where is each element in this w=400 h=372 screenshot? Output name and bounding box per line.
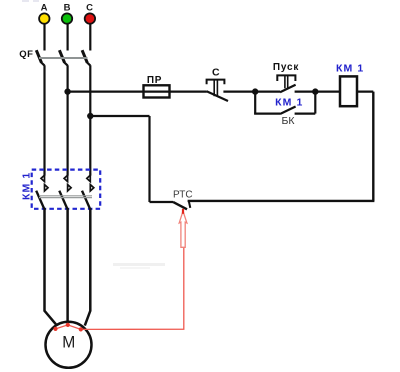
- svg-text:КМ 1: КМ 1: [21, 172, 33, 200]
- contactor pole A lower triangle: [45, 185, 49, 191]
- contactor pole B lower triangle: [68, 185, 72, 191]
- thermal contact RTC left wire: [150, 201, 174, 203]
- contactor pole A upper triangle: [41, 175, 45, 181]
- red arrow solid tip: [182, 209, 184, 214]
- wire phase B from QF to contactor: [66, 65, 68, 175]
- fuse PR body: [144, 85, 170, 97]
- svg-text:КМ 1: КМ 1: [275, 97, 303, 109]
- faint watermark smudge: [113, 263, 165, 269]
- auxiliary contact KM1 blade: [280, 107, 296, 115]
- auxiliary contact branch right wire: [314, 92, 316, 114]
- wire from node C going right: [90, 115, 149, 117]
- wire phase C from terminal to QF: [89, 24, 91, 51]
- breaker QF pole A blade: [36, 50, 44, 65]
- phase terminal C: [85, 3, 95, 24]
- control wire from node B to stop button: [68, 90, 207, 92]
- red sensor dot 2: [66, 323, 70, 327]
- stop button C plunger: [214, 80, 217, 97]
- svg-text:QF: QF: [19, 49, 33, 60]
- thermal contact RTC right stub: [189, 202, 190, 208]
- wire phase A from contactor to motor: [45, 208, 58, 326]
- bottom return wire: [188, 200, 375, 202]
- svg-text:С: С: [212, 66, 220, 78]
- start button Pusk bracket: [277, 75, 295, 81]
- wire phase A from QF to contactor: [43, 65, 45, 175]
- contactor pole B blade: [59, 191, 67, 209]
- stop button C bracket: [207, 80, 225, 85]
- wire from coil to right rail: [357, 90, 373, 92]
- breaker QF mechanical linkage: [39, 57, 88, 59]
- svg-text:B: B: [64, 3, 71, 14]
- node left of start button: [252, 88, 258, 94]
- control wire from stop button to start node: [223, 90, 280, 92]
- phase terminal B: [62, 3, 72, 24]
- node on phase C feeding return line: [87, 113, 93, 119]
- red hollow arrow pointing to RTC: [179, 211, 187, 247]
- thermal contact RTC blade: [173, 202, 187, 209]
- svg-text:C: C: [86, 3, 93, 14]
- contactor coil KM1 body: [340, 76, 357, 106]
- contactor KM1 dashed enclosure: [32, 170, 101, 209]
- node right of start button: [312, 88, 318, 94]
- red sensor dot 1: [53, 327, 57, 331]
- contactor pole A blade: [36, 191, 44, 209]
- breaker QF pole B blade: [59, 50, 67, 65]
- svg-text:КМ 1: КМ 1: [336, 63, 364, 75]
- right rail wire down: [372, 92, 374, 201]
- start button Pusk blade: [280, 85, 296, 93]
- faint cropped text at top edge: [22, 0, 39, 2]
- wire phase B from contactor to motor: [66, 208, 69, 322]
- contactor mechanical linkage: [39, 196, 92, 198]
- auxiliary contact branch left wire: [254, 92, 256, 114]
- wire phase B from terminal to QF: [66, 24, 68, 51]
- breaker QF pole C blade: [82, 50, 90, 65]
- contactor pole C upper triangle: [87, 175, 91, 181]
- start button Pusk plunger: [285, 75, 288, 88]
- motor M: [46, 322, 92, 368]
- svg-text:A: A: [41, 3, 48, 14]
- stop button C blade: [207, 91, 228, 101]
- wire phase C from QF to contactor: [89, 65, 91, 175]
- svg-text:М: М: [62, 333, 75, 352]
- svg-text:БК: БК: [281, 115, 295, 127]
- red sensor wire polyline: [56, 248, 184, 330]
- red sensor dot 3: [79, 327, 83, 331]
- contactor pole C lower triangle: [90, 185, 94, 191]
- control wire from start node to coil: [295, 90, 340, 92]
- auxiliary contact branch bottom right wire: [295, 112, 316, 114]
- contactor pole B upper triangle: [64, 175, 68, 181]
- node on phase B feeding control line: [64, 88, 70, 94]
- wire phase C from contactor to motor: [85, 208, 91, 326]
- svg-text:РТС: РТС: [173, 190, 193, 201]
- phase terminal A: [39, 3, 49, 24]
- wire down to thermal contact: [148, 116, 150, 202]
- svg-text:Пуск: Пуск: [273, 62, 299, 73]
- contactor pole C blade: [82, 191, 90, 209]
- auxiliary contact branch bottom left wire: [254, 112, 280, 114]
- wire phase A from terminal to QF: [43, 24, 45, 51]
